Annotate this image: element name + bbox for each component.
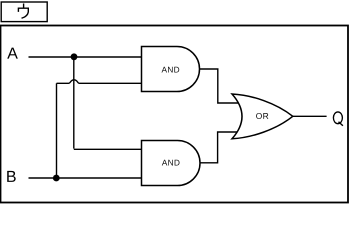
wire A branch to lower AND bbox=[74, 148, 142, 150]
AND gate U2 (bottom) bbox=[142, 141, 201, 186]
AND gate U1 (top) bbox=[142, 47, 200, 92]
output label Q bbox=[333, 112, 343, 126]
wire U1 output to OR bbox=[200, 69, 239, 103]
label OR bbox=[256, 113, 268, 119]
answer tab box bbox=[1, 2, 47, 22]
wire Q output bbox=[293, 115, 327, 117]
OR gate U3 bbox=[232, 94, 293, 139]
input label B bbox=[7, 171, 16, 182]
main frame bbox=[1, 26, 349, 203]
label AND (top) bbox=[162, 67, 180, 73]
wire B branch vertical bbox=[56, 83, 58, 178]
input label A bbox=[7, 48, 18, 59]
wire U2 output to OR bbox=[200, 132, 238, 163]
wire A input bbox=[29, 56, 142, 58]
katakana label ウ bbox=[18, 4, 28, 18]
label AND (bottom) bbox=[162, 160, 180, 166]
wire B branch to upper AND with hop bbox=[57, 80, 142, 84]
node B junction bbox=[53, 175, 60, 182]
wire B input bbox=[29, 177, 142, 179]
node A junction bbox=[71, 53, 78, 60]
wire A branch vertical bbox=[73, 57, 75, 149]
